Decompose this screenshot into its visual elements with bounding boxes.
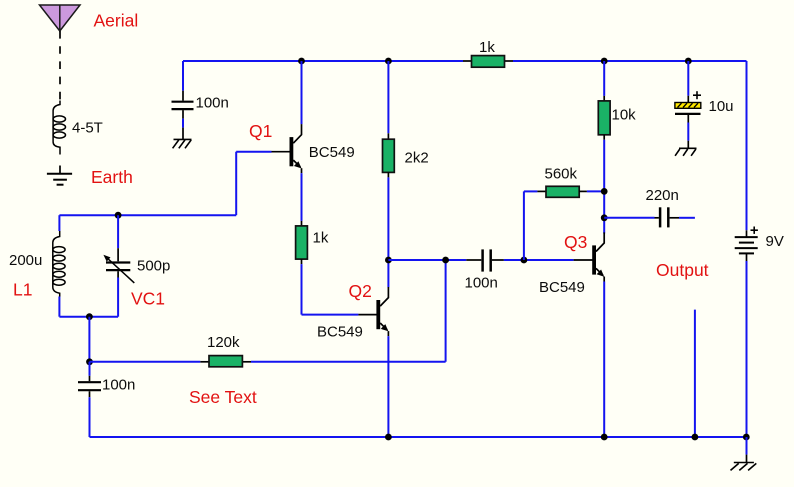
resistor R3 2k2 [383, 61, 395, 260]
wire Q1 base riser [235, 152, 237, 216]
svg-text:BC549: BC549 [539, 279, 585, 296]
label plus 10u [693, 91, 701, 99]
node 560k to 10k [601, 188, 608, 195]
wire Q2 base [302, 314, 359, 316]
node bottom Q2 emitter [385, 434, 392, 441]
svg-text:Q2: Q2 [349, 281, 372, 301]
wire top supply rail [183, 60, 747, 62]
node bottom battery [743, 434, 750, 441]
wire battery ground lead [746, 437, 748, 455]
svg-text:Output: Output [656, 260, 709, 280]
capacitor C5 100n coupling [466, 249, 573, 271]
svg-text:VC1: VC1 [131, 289, 165, 309]
svg-text:4-5T: 4-5T [72, 120, 103, 137]
ground chassis C1 [173, 139, 192, 148]
wire output lower stub [694, 310, 696, 437]
node feedback joins [442, 257, 449, 264]
svg-text:Q1: Q1 [249, 121, 272, 141]
wire tank to feedback node [88, 317, 90, 362]
transistor Q3 BC549 [574, 218, 605, 437]
resistor R5 120k [200, 356, 251, 367]
wire right rail upper [746, 61, 748, 230]
resistor R6 10k [598, 61, 610, 218]
node top rail 10k [601, 58, 608, 65]
inductor L1 200u [53, 215, 65, 317]
ground chassis 10u [675, 148, 696, 156]
capacitor C6 220n output [604, 207, 695, 227]
transistor Q2 BC549 [358, 260, 388, 437]
svg-text:120k: 120k [207, 334, 240, 351]
svg-text:100n: 100n [196, 94, 229, 111]
ground earth [47, 174, 72, 185]
wire aerial dashed lead [59, 31, 61, 101]
svg-text:100n: 100n [465, 274, 498, 291]
wire coil to earth [59, 166, 61, 174]
resistor R1 1k supply [463, 56, 513, 68]
svg-text:10u: 10u [709, 98, 734, 115]
wire collector node to coupling cap [388, 259, 466, 261]
svg-text:BC549: BC549 [309, 144, 355, 161]
node Q3 base / 560k [521, 257, 528, 264]
svg-text:Aerial: Aerial [94, 11, 139, 31]
node bottom output stub [692, 434, 699, 441]
inductor aerial coil 4-5T [53, 101, 65, 155]
node tank bottom branch [86, 313, 93, 320]
ground chassis battery [731, 463, 757, 471]
svg-text:500p: 500p [137, 257, 170, 274]
svg-text:Earth: Earth [91, 167, 133, 187]
svg-text:100n: 100n [102, 377, 135, 394]
node output tap [601, 214, 608, 221]
node tank top VC1 [115, 212, 122, 219]
node top rail 2k2 [385, 58, 392, 65]
wire right rail lower [746, 261, 748, 437]
svg-text:2k2: 2k2 [405, 150, 429, 167]
capacitor VC1 500p variable [103, 215, 134, 317]
node bottom Q3 emitter [601, 434, 608, 441]
svg-text:See Text: See Text [189, 387, 257, 407]
wire tank bottom [59, 316, 118, 318]
svg-text:10k: 10k [612, 107, 637, 124]
wire feedback riser [445, 260, 447, 362]
capacitor C2 10u electrolytic [675, 61, 701, 148]
resistor R2 1k emitter [296, 173, 308, 314]
svg-text:220n: 220n [646, 187, 679, 204]
wire feedback run [90, 361, 201, 363]
resistor R4 560k [524, 186, 604, 260]
capacitor C4 100n lower left [78, 362, 101, 437]
svg-text:560k: 560k [545, 166, 578, 183]
svg-text:L1: L1 [13, 280, 32, 300]
wire C1 to ground [182, 110, 184, 119]
node feedback branch [86, 358, 93, 365]
transistor Q1 BC549 [272, 61, 302, 173]
wire bottom rail [90, 436, 747, 438]
svg-text:1k: 1k [313, 229, 329, 246]
capacitor C1 100n [172, 102, 194, 109]
node top rail Q1 collector [298, 58, 305, 65]
svg-text:200u: 200u [9, 252, 42, 269]
svg-text:1k: 1k [479, 39, 495, 56]
node top rail 10u [685, 58, 692, 65]
battery B1 9V [735, 230, 758, 261]
node Q2 collector [385, 257, 392, 264]
svg-text:9V: 9V [766, 233, 784, 250]
wire tank top [59, 214, 236, 216]
wire 100n decoupling lead [182, 61, 184, 91]
label plus battery [751, 227, 758, 234]
aerial ANT1 [40, 5, 81, 31]
svg-text:BC549: BC549 [317, 324, 363, 341]
svg-text:Q3: Q3 [564, 232, 587, 252]
